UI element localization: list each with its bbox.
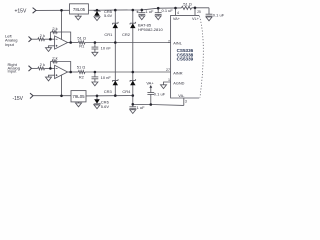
svg-text:10 nF: 10 nF — [101, 46, 112, 51]
svg-text:5.6V: 5.6V — [101, 104, 110, 109]
svg-text:51 Ω: 51 Ω — [77, 65, 86, 70]
svg-text:CS5339: CS5339 — [177, 56, 194, 61]
svg-text:2 k: 2 k — [40, 33, 45, 38]
svg-text:R1: R1 — [79, 44, 85, 49]
svg-text:25: 25 — [197, 10, 201, 14]
svg-text:CR2: CR2 — [122, 32, 131, 37]
svg-text:2: 2 — [168, 39, 170, 43]
svg-text:-15V: -15V — [12, 96, 23, 102]
svg-text:27: 27 — [166, 68, 170, 72]
svg-text:CR3: CR3 — [104, 89, 113, 94]
svg-text:0.1 uF: 0.1 uF — [154, 91, 166, 96]
svg-text:2 k: 2 k — [52, 26, 57, 31]
svg-text:R2: R2 — [79, 75, 85, 80]
svg-text:51 Ω: 51 Ω — [77, 36, 86, 41]
svg-text:78L05: 78L05 — [73, 7, 86, 12]
svg-text:1 uF: 1 uF — [137, 105, 146, 110]
svg-text:4: 4 — [177, 11, 179, 15]
svg-text:CR4: CR4 — [122, 89, 131, 94]
svg-text:VL+: VL+ — [192, 17, 200, 21]
svg-text:VA+: VA+ — [173, 17, 181, 21]
svg-text:51 Ω: 51 Ω — [183, 1, 192, 6]
svg-text:AGND: AGND — [173, 82, 184, 86]
svg-text:CR1: CR1 — [104, 32, 113, 37]
svg-text:1: 1 — [168, 78, 170, 82]
svg-text:AINL: AINL — [173, 41, 182, 45]
svg-text:3: 3 — [185, 100, 187, 104]
svg-text:VA+: VA+ — [146, 80, 154, 85]
svg-text:1 uF: 1 uF — [145, 9, 154, 14]
svg-text:5.6V: 5.6V — [104, 13, 113, 18]
svg-text:0.1 uF: 0.1 uF — [213, 13, 225, 18]
svg-text:VA-: VA- — [178, 94, 185, 98]
svg-text:AINR: AINR — [173, 72, 182, 76]
svg-text:79L05: 79L05 — [72, 94, 85, 99]
svg-text:HP5082-2810: HP5082-2810 — [138, 27, 163, 32]
svg-text:Input: Input — [8, 69, 18, 74]
svg-text:0.1 uF: 0.1 uF — [162, 8, 174, 13]
svg-text:+15V: +15V — [14, 9, 26, 15]
svg-text:2 k: 2 k — [52, 55, 57, 60]
svg-text:10 nF: 10 nF — [101, 75, 112, 80]
svg-text:2 k: 2 k — [40, 62, 45, 67]
svg-text:Input: Input — [5, 42, 15, 47]
